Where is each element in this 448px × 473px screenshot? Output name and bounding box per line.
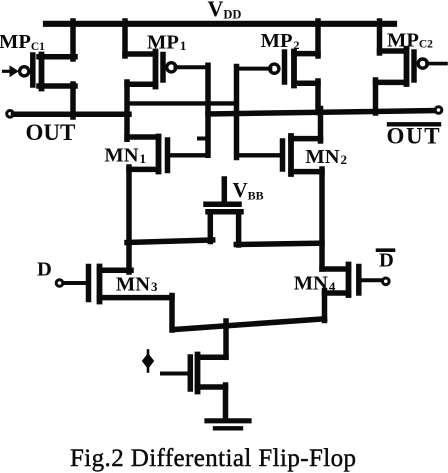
svg-text:D: D <box>379 250 394 272</box>
svg-text:MP2: MP2 <box>261 30 300 52</box>
svg-text:MN1: MN1 <box>104 145 146 167</box>
svg-text:MP1: MP1 <box>147 32 186 54</box>
svg-text:MN2: MN2 <box>305 146 347 168</box>
svg-text:MN4: MN4 <box>294 273 336 295</box>
svg-text:D: D <box>37 259 52 281</box>
svg-text:VBB: VBB <box>233 178 264 203</box>
svg-text:MPC2: MPC2 <box>387 30 433 52</box>
svg-text:OUT: OUT <box>26 120 76 145</box>
svg-text:MN3: MN3 <box>116 273 158 295</box>
svg-text:VDD: VDD <box>208 0 242 22</box>
svg-text:MPC1: MPC1 <box>0 31 45 53</box>
svg-text:OUT: OUT <box>387 124 442 149</box>
